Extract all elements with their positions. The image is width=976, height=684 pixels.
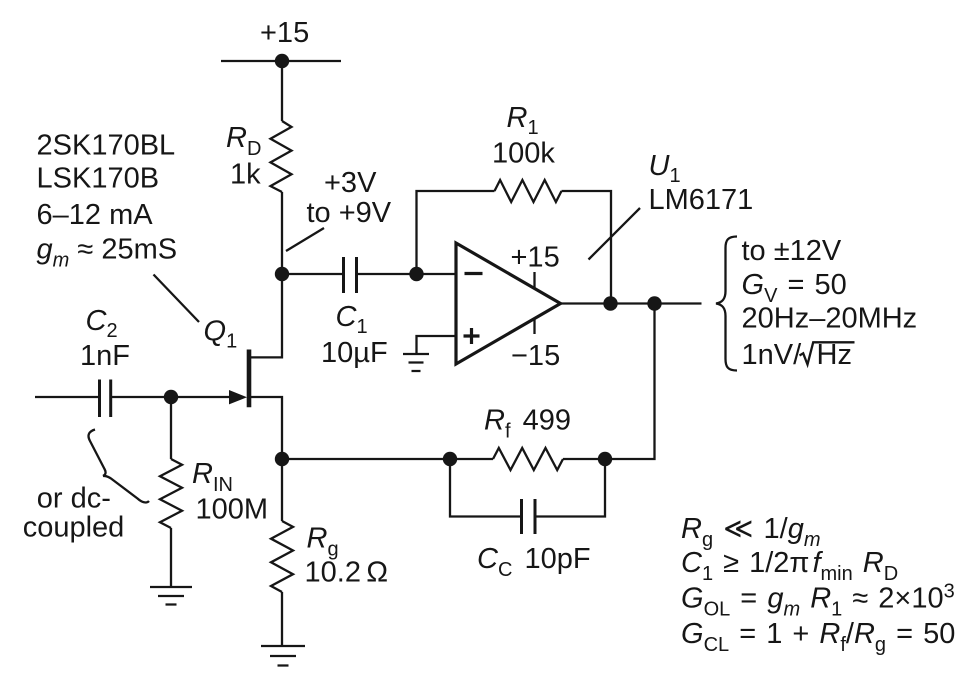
JFET Q1 channel bar [247,350,252,408]
node: output junction dot (feedback) [603,296,617,310]
wire: Cc left leg [450,459,522,517]
svg-text:10.2Ω: 10.2Ω [305,557,389,589]
op-amp +15 supply tick [533,272,535,289]
pointer line from gm text to Q1 [154,275,200,323]
svg-text:1nV/: 1nV/ [742,339,803,371]
svg-text:2SK170BL: 2SK170BL [37,130,176,162]
ground (RIN) [150,587,192,605]
op-amp plus sign [464,328,480,344]
op-amp minus sign [465,272,483,275]
svg-text:coupled: coupled [23,511,125,543]
wire: input node down to RIN [170,397,172,459]
svg-text:LM6171: LM6171 [649,184,754,216]
JFET Q1 source lead [251,397,282,459]
input wire [35,396,100,398]
node: input junction dot [164,390,178,404]
svg-text:1nF: 1nF [80,340,130,372]
node: drain junction dot [275,267,289,281]
svg-text:or dc-: or dc- [37,482,111,514]
resistor Rf (zigzag) [493,448,563,470]
wire: output down to Rf [605,304,655,460]
op-amp U1 triangle [456,243,561,364]
wire: C1 to op-amp inverting input [357,273,457,275]
svg-text:100M: 100M [196,494,269,526]
pointer line from LM6171 to op-amp [589,208,641,260]
wire: Rg to ground [281,592,283,645]
ground (op-amp + input) [403,354,429,371]
svg-text:LSK170B: LSK170B [37,163,160,195]
capacitor Cc plates [520,499,523,534]
node: output junction dot (Rf) [647,296,661,310]
svg-text:20Hz–20MHz: 20Hz–20MHz [742,302,918,334]
capacitor C1 plates [342,257,345,293]
wire: drain node to C1 [282,273,344,275]
svg-text:to +9V: to +9V [307,197,392,229]
svg-text:to ±12V: to ±12V [742,235,842,267]
svg-text:+15: +15 [260,17,309,49]
JFET Q1 gate arrow [229,390,247,404]
node: supply junction dot [275,54,289,68]
wire: non-inverting input to ground [417,336,457,353]
node: inverting input junction dot [409,267,423,281]
pointer line from +3V text to drain wire [286,228,324,251]
node: Rf right junction dot [598,452,612,466]
node: source junction dot [275,452,289,466]
wire: Cc right leg [535,459,605,517]
wire: op-amp output [561,302,702,304]
wire: R1 to output riser [562,191,612,304]
resistor RIN (zigzag) [160,459,182,528]
wire: RD bottom to JFET drain lead [251,192,282,357]
wire: RIN to ground [170,528,172,586]
wire: +15 supply rail [221,60,341,62]
output brace [716,237,737,371]
wire: source node to Rg [281,459,283,521]
svg-text:100k: 100k [492,138,555,170]
svg-text:10µF: 10µF [321,337,388,369]
svg-text:−15: −15 [511,340,560,372]
svg-text:Hz: Hz [817,339,852,371]
wire: C2 to JFET gate [111,396,230,398]
wire: Rf right to node [563,458,605,460]
resistor R1 (zigzag) [495,180,562,202]
wire: rail to RD top [281,61,283,121]
op-amp -15 supply tick [533,319,535,335]
resistor Rg (zigzag) [271,521,293,592]
svg-text:+15: +15 [511,242,560,274]
node: Rf left junction dot [443,452,457,466]
svg-text:6–12 mA: 6–12 mA [37,199,154,231]
input coupling brace squiggle [89,430,149,503]
capacitor C2 plates [98,380,101,418]
svg-text:+3V: +3V [324,167,377,199]
svg-text:1k: 1k [230,159,261,191]
ground (Rg) [261,646,305,666]
resistor RD (zigzag) [271,121,292,192]
wire: feedback riser and top rail [417,191,495,274]
sqrt radical sign with overline [800,342,855,364]
wire: source node row to Rf [282,458,493,460]
